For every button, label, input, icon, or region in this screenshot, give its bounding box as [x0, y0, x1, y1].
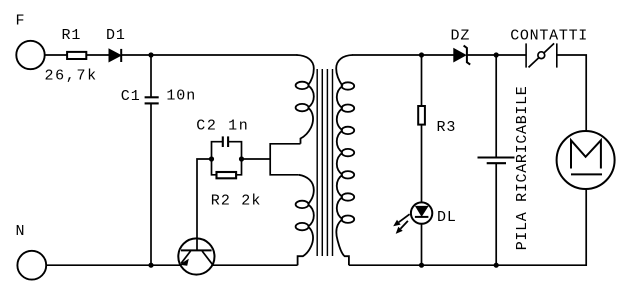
transformer primary winding top [296, 55, 314, 144]
node base right [239, 156, 244, 161]
wire N to transistor emitter [47, 264, 181, 266]
svg-text:C2 1n: C2 1n [196, 118, 248, 135]
diode D1 [109, 49, 121, 62]
svg-text:CONTATTI: CONTATTI [510, 28, 588, 45]
capacitor C2 [212, 136, 242, 159]
resistor R1 [67, 52, 86, 59]
svg-text:R2 2k: R2 2k [211, 193, 262, 210]
svg-text:PILA RICARICABILE: PILA RICARICABILE [514, 85, 531, 250]
switch CONTATTI [526, 43, 557, 67]
zener DZ [454, 46, 470, 65]
svg-text:D1: D1 [106, 27, 126, 44]
resistor R3 [418, 106, 425, 125]
capacitor C1 [145, 97, 159, 103]
transformer primary winding bottom [296, 175, 314, 265]
LED DL [393, 202, 432, 233]
svg-text:R3: R3 [437, 119, 457, 136]
wire switch to motor [557, 55, 586, 131]
svg-text:DL: DL [437, 209, 457, 226]
wire R3 to LED [421, 125, 423, 202]
svg-text:26,7k: 26,7k [45, 67, 98, 84]
wire base from node down [197, 159, 212, 250]
transformer center tap step [270, 144, 300, 175]
transformer core [317, 69, 332, 256]
wire node to transformer [151, 54, 298, 56]
terminal N [17, 251, 46, 280]
wire node to switch [496, 54, 526, 56]
svg-text:R1: R1 [62, 27, 82, 44]
motor M [557, 131, 615, 189]
wire node to DZ [422, 54, 454, 56]
wire battery bottom [495, 163, 497, 265]
node battery bottom [494, 263, 499, 268]
transformer secondary winding [336, 55, 354, 265]
wire battery top [495, 55, 497, 158]
node base left [209, 156, 214, 161]
node R3 top [419, 52, 424, 57]
wire R3 branch top [421, 55, 423, 106]
battery plate negative [487, 162, 506, 164]
wire node down to C1 [150, 55, 152, 97]
svg-text:C1: C1 [121, 88, 141, 105]
wire F to R1 [46, 54, 68, 56]
node junction top-left [148, 52, 153, 57]
svg-text:DZ: DZ [451, 28, 471, 45]
wire DZ to node battery [467, 54, 496, 56]
wire tap [242, 158, 271, 160]
wire secondary to node R3 [352, 54, 422, 56]
transistor Q1 [178, 238, 214, 274]
wire LED to bottom rail [421, 225, 423, 266]
node LED bottom [419, 263, 424, 268]
node battery top [494, 52, 499, 57]
wire collector to primary bottom [213, 264, 298, 266]
wire R1 to D1 [86, 54, 109, 56]
svg-text:N: N [16, 223, 26, 240]
resistor R2 [212, 159, 242, 178]
node junction bottom-left [148, 263, 153, 268]
svg-text:10n: 10n [166, 88, 196, 105]
terminal F [16, 41, 44, 69]
wire motor to bottom rail [349, 190, 586, 266]
wire D1 to node [121, 54, 151, 56]
wire C1 to bottom rail [150, 103, 152, 265]
battery plate positive [478, 157, 515, 159]
svg-text:F: F [16, 12, 26, 29]
